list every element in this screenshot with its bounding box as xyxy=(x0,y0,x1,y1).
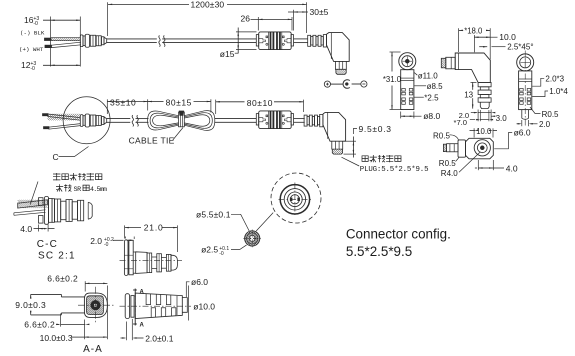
label R0.5 with leader (F3) xyxy=(530,107,559,119)
label ø11.0 xyxy=(414,71,438,80)
svg-text:1200±30: 1200±30 xyxy=(191,0,225,10)
dimension 6.6±0.2 (top) xyxy=(47,274,107,292)
boot side view upper xyxy=(120,240,183,276)
leader to plug tip xyxy=(342,157,360,166)
cable segment xyxy=(294,119,305,123)
dimension 1200±30 overall length xyxy=(108,0,307,36)
leader from end view to detail circle xyxy=(256,213,273,231)
dimension *18.0 (F2 width) xyxy=(459,26,491,59)
svg-text:ø6.0: ø6.0 xyxy=(514,128,531,138)
svg-text:21.0: 21.0 xyxy=(144,222,164,232)
svg-text:80±15: 80±15 xyxy=(166,98,192,108)
svg-text:-0: -0 xyxy=(30,66,35,72)
cable segment xyxy=(107,119,131,123)
svg-text:ø10.0: ø10.0 xyxy=(193,301,215,311)
label ground-wire heatshrink (CJK line1) xyxy=(53,173,102,180)
centerlines of A-A head xyxy=(78,287,114,324)
svg-text:-0: -0 xyxy=(219,251,224,257)
svg-text:35±10: 35±10 xyxy=(110,98,136,108)
dimension 10.0 (body width) xyxy=(474,32,516,52)
dimension ø5.5±0.1 with leader xyxy=(196,210,249,232)
svg-text:ø8.5: ø8.5 xyxy=(427,82,444,91)
svg-text:R0.5: R0.5 xyxy=(542,110,559,119)
plug rear view F3 body with ribs xyxy=(519,71,532,119)
dimension ø10.0 (boot diameter) xyxy=(189,286,216,321)
svg-text:ø6.0: ø6.0 xyxy=(191,277,208,287)
plug front view F1 ring xyxy=(399,53,416,70)
dimension *31.0 (F1 height) xyxy=(383,52,403,110)
label R0.5 (top, V5) xyxy=(433,131,459,140)
polarity symbol center-positive xyxy=(324,80,367,89)
svg-text:1.0*4: 1.0*4 xyxy=(549,87,568,96)
dimension 10.0±0.3 (head width) xyxy=(40,286,108,344)
dimension 80±15 xyxy=(148,98,211,113)
svg-text:*2.5: *2.5 xyxy=(424,93,439,102)
svg-text:C-C: C-C xyxy=(37,239,58,250)
plug rear view F3 ring xyxy=(517,54,534,71)
dimension ø2.5 +0.1/-0 with leader xyxy=(201,245,247,257)
label *2.5 xyxy=(414,93,440,102)
dimension 21.0 (boot length) xyxy=(125,222,178,252)
svg-text:PLUG:5.5*2.5*9.5: PLUG:5.5*2.5*9.5 xyxy=(360,166,429,174)
cable segment xyxy=(107,39,157,43)
svg-text:CABLE TIE: CABLE TIE xyxy=(129,136,175,146)
svg-text:13: 13 xyxy=(464,91,473,100)
dimension 3.0 xyxy=(491,114,507,123)
label insert into SR 4.5mm (CJK line2) xyxy=(56,184,107,194)
svg-text:(+) WHT: (+) WHT xyxy=(19,46,44,53)
dimension 12 +3/-0 (stripped WHT wire length) xyxy=(21,60,80,72)
svg-text:(-) BLK: (-) BLK xyxy=(20,30,45,37)
inner wire xyxy=(14,210,46,216)
svg-text:*7.0: *7.0 xyxy=(454,118,468,127)
dimension 35±10 xyxy=(107,98,147,115)
dimension 2.0 (F3 barrel tip) xyxy=(517,120,551,129)
svg-text:-0: -0 xyxy=(104,242,109,248)
ferrite bead (striped core with clamp shell) xyxy=(256,32,293,50)
svg-text:9.5±0.3: 9.5±0.3 xyxy=(359,124,392,134)
dimension ø8.0 (F1 body width) xyxy=(401,111,441,121)
svg-text:ø11.0: ø11.0 xyxy=(418,71,438,80)
svg-text:-0: -0 xyxy=(33,21,38,27)
svg-text:2.0: 2.0 xyxy=(539,120,551,129)
label R0.5 (bottom, V5) xyxy=(439,157,459,168)
centerline F3 xyxy=(524,51,526,127)
svg-text:ø8.0: ø8.0 xyxy=(423,111,440,121)
svg-text:16: 16 xyxy=(24,15,34,25)
svg-text:2.0±0.1: 2.0±0.1 xyxy=(145,334,174,344)
dimension 30±5 (ferrite to plug) xyxy=(288,7,329,30)
svg-text:R4.0: R4.0 xyxy=(441,169,458,178)
svg-text:30±5: 30±5 xyxy=(310,7,329,17)
cable segment xyxy=(162,39,256,43)
label C with leader xyxy=(53,147,89,163)
dimension 2.0 +0.2/-0 (flange thickness) xyxy=(90,236,134,248)
svg-text:3.0: 3.0 xyxy=(496,114,508,123)
svg-text:R0.5: R0.5 xyxy=(433,131,450,140)
svg-text:A: A xyxy=(140,323,145,329)
dimension 16 +3/-0 (stripped BLK wire length) xyxy=(24,15,80,27)
cable segment xyxy=(215,119,257,123)
dimension 9.0±0.3 (tube diameter) xyxy=(15,294,46,315)
extension lines for 16/12 dims xyxy=(51,17,81,67)
label R4.0 with leader (V5) xyxy=(441,152,481,178)
svg-text:C: C xyxy=(53,152,59,162)
dimension 2.0±0.1 (lower flange) xyxy=(121,319,174,344)
dimension 6.6±0.2 (bottom) xyxy=(24,314,89,330)
cable tie folded bundle xyxy=(148,111,215,131)
label 1.0*4 with leader xyxy=(532,87,568,96)
svg-text:ø5.5±0.1: ø5.5±0.1 xyxy=(196,210,231,220)
svg-text:Connector config.: Connector config. xyxy=(346,227,451,242)
dimension 80±10 xyxy=(216,98,304,114)
dimension 4.0 (flange depth) xyxy=(20,224,54,234)
section marks A-A on lower boot xyxy=(133,289,145,329)
svg-text:12: 12 xyxy=(21,60,31,70)
svg-text:2.5*45°: 2.5*45° xyxy=(507,42,533,51)
plug bottom view V5 body and octagon head xyxy=(458,138,493,159)
svg-text:A: A xyxy=(140,290,145,296)
dimension 9.5±0.3 (plug barrel length) xyxy=(344,124,392,158)
dimension 13 (strain relief length) xyxy=(464,82,476,108)
svg-text:4.5mm: 4.5mm xyxy=(90,186,107,193)
svg-text:10.0: 10.0 xyxy=(499,32,516,42)
detail circle C around cable end xyxy=(63,97,110,144)
dimensions 2.0 and *7.0 (SR tip widths) xyxy=(454,110,496,128)
svg-text:*31.0: *31.0 xyxy=(383,75,402,84)
right-angle DC plug (side view) xyxy=(308,33,350,75)
svg-text:26: 26 xyxy=(241,14,251,24)
svg-text:*18.0: *18.0 xyxy=(464,26,483,35)
dimension ø6.0 with leader (V5 barrel) xyxy=(494,128,531,149)
label fork-groove type (CJK) xyxy=(362,155,401,162)
plug front view F1 body xyxy=(401,70,414,110)
wires inside detail C xyxy=(43,114,81,130)
svg-text:10.0±0.3: 10.0±0.3 xyxy=(40,333,73,343)
plug tip face concentric circles xyxy=(279,183,312,217)
ferrite bead (striped core with clamp shell) xyxy=(256,111,293,129)
boot flange (section C-C) xyxy=(39,197,53,225)
label ø8.5 xyxy=(414,82,443,91)
wire WHT (slanting up to boot) xyxy=(45,42,81,47)
plug tip end view (small, hatched) xyxy=(243,230,261,248)
strain relief boot at cable end xyxy=(80,34,106,47)
strain relief boot at cable end xyxy=(80,114,106,127)
wire BLK with tinned tip and braid xyxy=(45,38,81,41)
svg-text:9.0±0.3: 9.0±0.3 xyxy=(15,300,46,310)
cable break symbol xyxy=(132,115,138,126)
svg-text:2.0: 2.0 xyxy=(90,236,102,246)
detail circle (dashed) of plug tip xyxy=(271,173,321,223)
svg-text:4.0: 4.0 xyxy=(20,224,32,234)
right-angle DC plug (side view) xyxy=(304,112,346,154)
dimension ø15 (ferrite diameter) xyxy=(220,28,257,60)
svg-text:R0.5: R0.5 xyxy=(439,159,456,168)
svg-text:ø2.5: ø2.5 xyxy=(201,245,218,255)
cable break symbol xyxy=(159,36,165,47)
dimension 2.5*45° (chamfer) xyxy=(479,42,533,51)
plug bottom view V5 barrel xyxy=(443,144,458,152)
svg-text:5.5*2.5*9.5: 5.5*2.5*9.5 xyxy=(346,244,412,259)
svg-text:6.6±0.2: 6.6±0.2 xyxy=(24,320,55,330)
svg-text:SC 2:1: SC 2:1 xyxy=(38,250,76,261)
svg-text:SR: SR xyxy=(74,186,82,194)
plug side view F2 body xyxy=(455,53,490,82)
svg-text:80±10: 80±10 xyxy=(247,98,273,108)
label CABLE TIE with leader xyxy=(129,128,183,146)
cable segment xyxy=(294,39,308,43)
boot side view lower (with section A-A) xyxy=(120,290,192,325)
boot ribs cone (section C-C) xyxy=(52,199,92,223)
svg-text:4.0: 4.0 xyxy=(506,164,518,174)
svg-text:A-A: A-A xyxy=(83,344,103,355)
svg-text:10.0: 10.0 xyxy=(476,127,492,136)
plug side view F2 barrel with knurled tip xyxy=(441,57,455,69)
svg-text:2.0*3: 2.0*3 xyxy=(545,74,564,83)
connector head A-A (square with hatched face) xyxy=(84,293,107,317)
svg-text:ø15: ø15 xyxy=(220,49,235,59)
cable segment xyxy=(136,119,149,123)
leader line from label to braid xyxy=(30,182,38,205)
dimension 26 (ferrite core length) xyxy=(241,14,293,31)
braided shield wire (hatched) xyxy=(18,200,48,208)
label 2.0*3 with leader xyxy=(532,74,564,86)
cable tube side (9.0 section) xyxy=(31,294,85,315)
dimension 4.0 (V5) xyxy=(475,160,518,174)
dimension 10.0 (V5 head width) xyxy=(470,127,498,138)
svg-text:6.6±0.2: 6.6±0.2 xyxy=(47,274,78,284)
dimension ø6.0 (boot tip) xyxy=(186,277,208,297)
plug side view F2 strain relief (downward) xyxy=(478,82,491,108)
